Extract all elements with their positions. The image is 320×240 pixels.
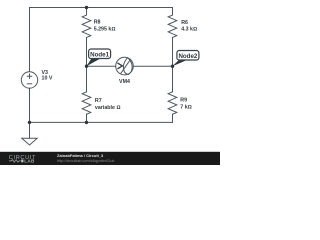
CircuitLab logo	[9, 155, 36, 164]
svg-text:4.3 kΩ: 4.3 kΩ	[181, 27, 197, 33]
svg-text:ZainabFatima / Circuit_3: ZainabFatima / Circuit_3	[57, 153, 104, 158]
wire top rail	[30, 7, 173, 9]
bottom junction R7	[85, 121, 88, 124]
svg-text:R7: R7	[95, 98, 102, 104]
wire mid right	[133, 65, 172, 67]
svg-text:R6: R6	[181, 20, 188, 26]
svg-text:R9: R9	[180, 98, 187, 104]
svg-text:10 V: 10 V	[42, 75, 53, 81]
svg-text:Node1: Node1	[90, 51, 109, 58]
junction dots	[28, 6, 174, 124]
svg-text:Node2: Node2	[178, 53, 197, 60]
ground junction	[28, 121, 31, 124]
svg-text:variable Ω: variable Ω	[95, 105, 121, 111]
node B Node2 flag	[172, 51, 199, 67]
node1 junction	[85, 65, 88, 68]
voltage source V3	[21, 72, 37, 88]
node A Node1 flag	[86, 49, 110, 66]
voltmeter VM4	[116, 57, 134, 75]
wire left rail	[29, 8, 31, 72]
labels	[42, 20, 198, 111]
svg-text:LAB: LAB	[24, 159, 35, 164]
ground	[29, 122, 31, 138]
wire mid left	[87, 65, 116, 67]
wire below V3	[29, 88, 31, 122]
footer banner	[0, 152, 220, 165]
svg-text:VM4: VM4	[119, 79, 130, 85]
wire bottom rail	[30, 121, 173, 123]
svg-text:http://circuitlab.com/c6qyurbv: http://circuitlab.com/c6qyurbv02uk	[57, 159, 115, 163]
node top junction	[85, 6, 88, 9]
svg-text:7 kΩ: 7 kΩ	[180, 105, 191, 111]
resistor R8	[86, 8, 88, 16]
resistor R6	[172, 8, 174, 16]
svg-text:R8: R8	[94, 20, 101, 26]
svg-text:5.295 kΩ: 5.295 kΩ	[94, 27, 116, 33]
resistor R7	[86, 66, 88, 92]
node2 junction	[171, 65, 174, 68]
resistor R9	[172, 66, 174, 92]
